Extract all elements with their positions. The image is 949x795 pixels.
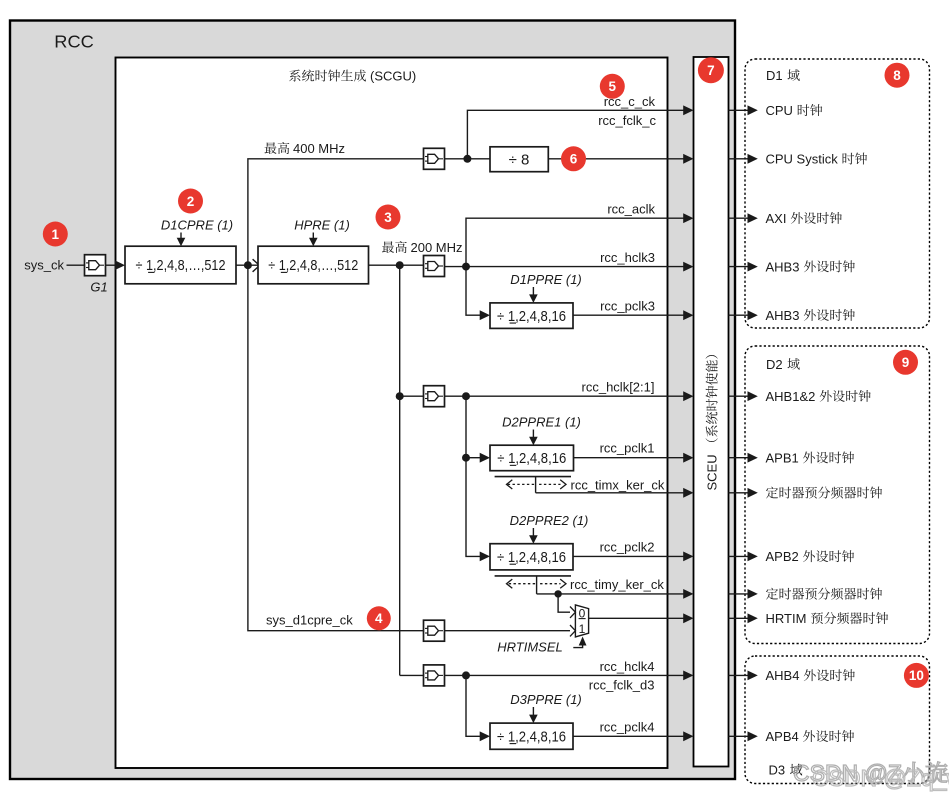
node d2 branch [396,392,404,400]
svg-text:HRTIMSEL: HRTIMSEL [497,639,563,654]
clock gate G1 [85,255,108,295]
svg-text:200 MHz: 200 MHz [411,240,463,255]
svg-text:CSDN @Zq_wang: CSDN @Zq_wang [812,765,949,791]
wire long vertical bus [399,265,401,675]
svg-text:D1CPRE (1): D1CPRE (1) [161,218,233,233]
chevron into HPRE [253,259,260,272]
D3 domain box [745,656,930,784]
wire rcc_pclk1 to SCEU [574,453,694,463]
svg-text:÷ 1,2,4,8,16: ÷ 1,2,4,8,16 [497,450,566,467]
svg-text:÷ 1,2,4,8,16: ÷ 1,2,4,8,16 [497,728,566,745]
label D1 域 [766,68,800,83]
wire D1CPRE to HPRE [236,264,258,266]
svg-text:÷ 1,2,4,8,…,512: ÷ 1,2,4,8,…,512 [136,257,226,274]
wire to hclk21 gate [400,395,424,397]
clock gate hclk4 [424,665,445,686]
label rcc_hclk3 [600,250,655,265]
svg-text:rcc_timy_ker_ck: rcc_timy_ker_ck [570,577,664,592]
node c_ck [463,155,471,163]
wire rcc_pclk4 to SCEU [573,731,694,741]
wire timy to mux input 0 [558,594,570,612]
label rcc_fclk_c [598,113,656,128]
label rcc_hclk4 [600,659,655,674]
label D1PPRE (1) [510,272,582,287]
circle 4 [367,606,391,630]
wire rcc_pclk3 to SCEU [573,310,694,320]
svg-text:rcc_hclk4: rcc_hclk4 [600,659,655,674]
wire branch to D3PPRE [466,675,490,741]
label sys_d1cpre_ck [266,612,353,627]
RCC outer block [10,21,735,780]
svg-text:rcc_aclk: rcc_aclk [607,202,655,217]
clock gate c_ck [424,148,445,169]
clock gate hclk3 [424,256,445,277]
clock gate hrtim [424,620,445,641]
svg-text:AHB3: AHB3 [766,259,800,274]
svg-text:rcc_pclk4: rcc_pclk4 [600,719,655,734]
output APB2 外设时钟 [729,549,855,564]
svg-text:CPU: CPU [766,103,793,118]
svg-text:HPRE (1): HPRE (1) [294,218,350,233]
node hclk21 [462,392,470,400]
wire branch to D1PPRE [466,267,490,321]
svg-text:RCC: RCC [54,32,94,52]
SCGU inner block 系统时钟生成 [116,58,668,769]
svg-text:÷ 8: ÷ 8 [509,151,530,168]
divider D1CPRE ÷1..512 [125,246,236,284]
svg-text:4: 4 [375,611,383,626]
label rcc_hclk[2:1] [582,380,655,395]
svg-text:2: 2 [187,194,195,209]
label HPRE (1) [294,218,350,233]
watermark CSDN [793,760,949,791]
circle 6 [561,146,586,171]
mux HRTIMSEL [570,605,589,637]
svg-text:rcc_pclk1: rcc_pclk1 [600,441,655,456]
output APB1 外设时钟 [729,450,855,465]
divider HPRE ÷1..512 [258,246,369,284]
label rcc_pclk2 [600,539,655,554]
timer mux rcc_timx_ker_ck [495,477,694,498]
svg-text:8: 8 [893,68,901,83]
svg-text:9: 9 [902,355,910,370]
label HRTIMSEL [497,639,563,654]
circle 10 [904,663,929,688]
wire div8 to SCEU rcc_fclk_c [548,154,693,164]
label 最高 200 MHz [382,240,462,255]
circle 2 [178,189,203,214]
label D3 域 [769,763,803,778]
label rcc_pclk4 [600,719,655,734]
svg-text:rcc_hclk3: rcc_hclk3 [600,250,655,265]
wire to hclk4 gate [400,674,424,676]
output APB4 外设时钟 [729,729,855,744]
node timy to mux [554,590,561,597]
svg-text:rcc_timx_ker_ck: rcc_timx_ker_ck [571,478,665,493]
node hclk4 [462,671,470,679]
svg-text:D2PPRE1 (1): D2PPRE1 (1) [502,415,581,430]
svg-text:400 MHz: 400 MHz [293,141,345,156]
output 定时器预分频器时钟 b [729,588,883,600]
timer mux rcc_timy_ker_ck [495,576,694,599]
svg-text:rcc_pclk2: rcc_pclk2 [600,539,655,554]
svg-text:6: 6 [570,152,578,167]
svg-text:÷ 1,2,4,8,16: ÷ 1,2,4,8,16 [497,308,566,325]
label D3PPRE (1) [510,692,582,707]
label D2 域 [766,357,800,372]
output AHB1&2 外设时钟 [729,389,871,404]
svg-text:APB2: APB2 [766,549,799,564]
svg-text:rcc_pclk3: rcc_pclk3 [600,299,655,314]
wire rcc_c_ck [467,105,693,158]
svg-text:10: 10 [909,668,924,683]
svg-text:1: 1 [579,622,586,636]
output CPU 时钟 [729,103,823,118]
HRTIMSEL select arrow [573,637,586,648]
label rcc_pclk1 [600,441,655,456]
wire sys_ck to gate G1 [67,264,85,266]
divider D2PPRE2 [490,544,573,570]
svg-text:3: 3 [384,210,392,225]
D1 domain box [745,59,930,328]
label sys_ck [24,258,64,273]
D2 domain box [745,346,930,644]
wire rcc_pclk2 to SCEU [573,552,694,562]
wire sys_d1cpre_ck riser to 400MHz row [248,159,424,265]
svg-text:APB1: APB1 [766,450,799,465]
arrow D1CPRE control [177,233,186,247]
SCEU column 系统时钟使能 [694,57,729,767]
svg-text:(SCGU): (SCGU) [370,69,416,84]
label D1CPRE (1) [161,218,233,233]
svg-text:D2: D2 [766,357,783,372]
output AXI 外设时钟 [729,211,842,226]
label D2PPRE2 (1) [510,513,589,528]
label rcc_fclk_d3 [589,678,655,693]
node sys_d1cpre_ck [244,261,252,269]
label 最高 400 MHz [265,141,345,156]
svg-text:D3: D3 [769,763,786,778]
divider D3PPRE [490,723,573,749]
circle 7 [698,57,724,83]
svg-text:D1: D1 [766,68,783,83]
wire gate to mux input 1 [445,630,571,632]
label rcc_aclk [607,202,655,217]
svg-text:7: 7 [707,63,715,78]
node hpre out [396,261,404,269]
divider div8 [490,147,548,172]
output AHB3 外设时钟 [729,259,855,274]
svg-text:D3PPRE (1): D3PPRE (1) [510,692,582,707]
wire G1 to D1CPRE divider [106,260,126,270]
wire rcc_aclk [466,213,694,266]
node pclk1 branch [462,453,490,463]
arrow D1PPRE control [529,287,538,303]
svg-text:÷ 1,2,4,8,16: ÷ 1,2,4,8,16 [497,549,566,566]
svg-text:AHB1&2: AHB1&2 [766,389,816,404]
label D2PPRE1 (1) [502,415,581,430]
arrow D2PPRE1 control [529,430,538,446]
svg-text:sys_ck: sys_ck [24,258,64,273]
svg-text:sys_d1cpre_ck: sys_d1cpre_ck [266,612,353,627]
arrow HPRE control [309,233,318,247]
svg-text:G1: G1 [90,280,107,295]
svg-text:AXI: AXI [766,211,787,226]
circle 8 [885,63,910,88]
clock gate hclk21 [424,386,445,407]
output AHB3 外设时钟 b [729,308,855,323]
svg-text:SCEU: SCEU [705,454,720,490]
svg-text:APB4: APB4 [766,729,799,744]
circle 1 [43,222,68,247]
circle 5 [600,74,625,99]
wire mux out to SCEU HRTIM [589,613,694,623]
svg-text:rcc_hclk[2:1]: rcc_hclk[2:1] [582,380,655,395]
wire rcc_hclk[2:1] to SCEU [445,391,694,401]
svg-text:D2PPRE2 (1): D2PPRE2 (1) [510,513,589,528]
node hclk3 [462,263,470,271]
divider D2PPRE1 [490,445,574,471]
wire branch to D2PPRE1/2 [466,396,490,561]
circle 9 [893,350,918,375]
svg-text:D1PPRE (1): D1PPRE (1) [510,272,582,287]
svg-text:HRTIM: HRTIM [766,611,807,626]
output CPU Systick 时钟 [729,152,868,167]
wire gate to div8 [445,158,491,160]
svg-text:÷ 1,2,4,8,…,512: ÷ 1,2,4,8,…,512 [268,257,358,274]
svg-text:AHB3: AHB3 [766,308,800,323]
label rcc_pclk3 [600,299,655,314]
wire rcc_hclk4 to SCEU [445,671,694,681]
output 定时器预分频器时钟 [729,487,883,499]
circle 3 [376,205,401,230]
svg-text:AHB4: AHB4 [766,668,800,683]
wire rcc_hclk3 to SCEU [445,262,694,272]
wire sys_d1cpre_ck row [248,265,424,631]
arrow D3PPRE control [529,707,538,723]
divider D1PPRE [490,303,573,329]
svg-text:5: 5 [609,79,617,94]
output AHB4 外设时钟 [729,668,855,683]
arrow D2PPRE2 control [529,528,538,544]
svg-text:rcc_fclk_d3: rcc_fclk_d3 [589,678,655,693]
svg-text:rcc_fclk_c: rcc_fclk_c [598,113,656,128]
output HRTIM 预分频器时钟 [729,611,889,626]
label rcc_c_ck [604,94,656,109]
svg-text:1: 1 [52,227,60,242]
svg-text:CPU Systick: CPU Systick [766,152,839,167]
wire HPRE to 200MHz gate [369,264,424,266]
